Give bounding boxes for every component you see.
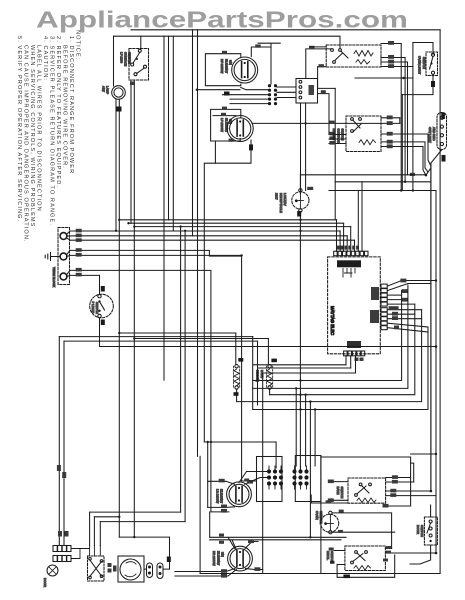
label RED on relay feed bbox=[309, 46, 315, 49]
S5 contacts bbox=[98, 295, 101, 298]
wire: TAN bottom run bbox=[337, 555, 395, 577]
wire: pin drops into control header bbox=[336, 220, 338, 252]
svg-text:NOTICE:: NOTICE: bbox=[75, 30, 81, 60]
switch S3 oven light switch (dashed box) bbox=[426, 52, 438, 76]
switch S5 pilot light switch (dashed circle) bbox=[90, 294, 114, 318]
wire: S7 left stubs bbox=[334, 482, 348, 501]
wire: S5 lower lead down and right bbox=[100, 318, 437, 347]
svg-text:2. REFER ONLY TO FEATURES EQUI: 2. REFER ONLY TO FEATURES EQUIPPED. bbox=[55, 36, 61, 188]
junction node A dots bbox=[425, 174, 428, 177]
switch S6 door lock switch (box with cross) bbox=[88, 556, 105, 581]
switch S2 contacts and blades bbox=[331, 49, 334, 52]
wire: CN1 fan to right trunks bbox=[387, 281, 436, 287]
wire: diagram top border L1 run bbox=[131, 29, 440, 31]
switch S2 infinite switch upper (dashed box) bbox=[326, 45, 381, 67]
wire: riser to bus bbox=[334, 88, 336, 181]
wire: E3 leads bbox=[235, 333, 237, 365]
wire: ring drop to block B mid bbox=[305, 395, 307, 466]
wire: E5 leads bbox=[208, 481, 235, 484]
labels BLK stubs bbox=[329, 132, 335, 145]
lamp receptacle LR1 (dashed capsule) bbox=[437, 113, 447, 150]
label BLK on left loop wire bbox=[57, 465, 61, 471]
wire: right long trunks bbox=[430, 163, 432, 491]
element E6 right rear surface unit bbox=[228, 546, 253, 571]
connector CN-RF receptacle pins (2x5) bbox=[268, 84, 277, 105]
wire: YEL link to oven cluster bbox=[311, 495, 348, 503]
wire: bus y181.8 bbox=[335, 181, 431, 183]
svg-text:AppliancePartsPros.com: AppliancePartsPros.com bbox=[36, 7, 408, 33]
svg-text:OVEN: OVEN bbox=[315, 511, 319, 520]
connector P2 bottom header (squares) bbox=[344, 351, 365, 356]
svg-text:DOOR: DOOR bbox=[43, 578, 47, 588]
junction dot bbox=[402, 77, 404, 79]
svg-text:LCK-NAV: LCK-NAV bbox=[283, 193, 287, 206]
wire: vertical return to bus bbox=[401, 95, 403, 191]
wire: CB-A ticks bbox=[269, 466, 281, 489]
element E2 coil symbol bbox=[237, 120, 243, 137]
element E4 bake element (zigzag, dashed sides) bbox=[267, 366, 273, 387]
connector CN5 pill bbox=[147, 563, 153, 578]
svg-text:SWITCH: SWITCH bbox=[341, 129, 345, 141]
wire: oven lamp bottom lead joining trunk bbox=[299, 212, 301, 471]
label TAN bbox=[442, 155, 446, 162]
wire: right border trunk bbox=[439, 30, 441, 574]
label text oven lamp bbox=[275, 193, 288, 213]
labels BLK BLK YEL at E6 bbox=[219, 534, 260, 578]
clock block pins bbox=[343, 269, 355, 278]
label BLK on E2 top bbox=[222, 107, 227, 110]
svg-text:TERM BLOCK: TERM BLOCK bbox=[52, 267, 56, 288]
svg-text:LF 1200W: LF 1200W bbox=[220, 118, 224, 132]
element E2 left front surface unit (double circle) bbox=[227, 116, 253, 142]
labels BLK BLU RED RED at S2 right bbox=[388, 41, 394, 68]
svg-text:40W LIGHT: 40W LIGHT bbox=[428, 127, 432, 143]
resistor R-S7 zigzag bbox=[357, 498, 376, 503]
svg-text:SWITCH: SWITCH bbox=[330, 551, 334, 563]
wire: S1 feed from border bbox=[140, 36, 142, 48]
wire: E2 second top lead bbox=[213, 115, 236, 117]
wire: RT1 leads bbox=[332, 513, 392, 549]
label TAN bbox=[343, 575, 350, 579]
labels BLK YEL at E5 bbox=[219, 479, 253, 513]
element E1 coil symbol bbox=[242, 62, 248, 79]
svg-text:LABEL ALL WIRES PRIOR TO DISCO: LABEL ALL WIRES PRIOR TO DISCONNECTION bbox=[36, 45, 42, 212]
svg-text:MAYTAG ELEC: MAYTAG ELEC bbox=[330, 306, 335, 335]
lamp DSP1 indicator (double circle) bbox=[112, 86, 126, 100]
svg-text:SURFACE: SURFACE bbox=[124, 52, 128, 66]
notice text block (rotated) bbox=[16, 30, 81, 243]
connector P1 top header (squares) bbox=[334, 251, 368, 256]
wire: harness bus fan to control bbox=[119, 219, 336, 221]
svg-text:SURFACE: SURFACE bbox=[336, 129, 340, 143]
receptacle LR1 contacts bbox=[440, 116, 443, 119]
ground symbol bbox=[45, 253, 60, 261]
labels BLK RED YEL on CN1 fan bbox=[400, 279, 407, 302]
junction dots red bus bbox=[435, 345, 438, 348]
element E5 coil bbox=[236, 487, 242, 503]
label BK vertical bbox=[249, 144, 253, 150]
svg-text:ANT: ANT bbox=[102, 86, 106, 92]
svg-text:SWITCH: SWITCH bbox=[95, 302, 99, 314]
wire: left mid verticals continuing down bbox=[180, 227, 182, 512]
wire: E1 red lead to receptacle bbox=[251, 47, 271, 84]
connector CN6 pill bbox=[157, 563, 163, 579]
label text RT1 bbox=[315, 511, 323, 525]
labels RED x2 bbox=[76, 268, 82, 277]
label text S7 bbox=[336, 487, 344, 499]
label text cluster E6 bbox=[212, 551, 225, 566]
wire: ring drops to blocks bbox=[295, 388, 297, 466]
junction dots S7 outputs bbox=[430, 490, 433, 493]
connector CN4 inline (strip) bbox=[53, 556, 71, 562]
svg-text:ELEMENT: ELEMENT bbox=[216, 551, 220, 565]
switch S1 contacts bbox=[138, 49, 141, 52]
wire: lamp feed from top border bbox=[113, 36, 115, 86]
label marks left of motor bbox=[108, 563, 117, 573]
wire: oven lamp top lead to node A bbox=[300, 175, 426, 189]
svg-text:SWITCH: SWITCH bbox=[340, 487, 344, 499]
terminal L1 bbox=[60, 233, 67, 240]
svg-text:BAKE: BAKE bbox=[336, 487, 340, 495]
wire: P2 pin drops bbox=[345, 356, 347, 365]
switch S4 contacts and blades bbox=[351, 118, 354, 121]
wire: L1 black leads bbox=[67, 231, 341, 235]
svg-text:SWITCH: SWITCH bbox=[127, 52, 131, 64]
labels YEL RED left stubs bbox=[328, 480, 334, 503]
label BLK bbox=[221, 113, 226, 116]
svg-text:ELEMENT: ELEMENT bbox=[225, 59, 229, 73]
label WH below lamp bbox=[297, 211, 301, 217]
lock block inside U1 bottom bbox=[347, 341, 361, 348]
label BLK / RD for E4 bbox=[271, 359, 277, 363]
wire: right side vertical trunks from S2 bbox=[400, 44, 402, 191]
label text cluster LR1 bbox=[428, 127, 436, 143]
label BLK below S1 bbox=[130, 82, 135, 86]
terminal L2 bbox=[60, 273, 67, 280]
svg-text:SWITCH: SWITCH bbox=[422, 57, 426, 69]
box: oven switch cluster top bbox=[321, 457, 411, 506]
lamp L3 door lock indicator bbox=[47, 565, 58, 576]
switch S1 surface unit switch (dashed box) bbox=[129, 49, 149, 81]
label text S5 bbox=[91, 302, 99, 314]
switch S9 oven door switch (dashed box) bbox=[424, 517, 437, 545]
label YEL feed bbox=[319, 64, 325, 67]
wire: link y454 bbox=[411, 453, 436, 455]
label text cluster S2 bbox=[332, 129, 345, 143]
label RED bbox=[255, 45, 261, 48]
wire: CB-B ticks bbox=[295, 466, 307, 489]
terminal N bbox=[60, 253, 67, 260]
label YEL bbox=[229, 139, 234, 142]
labels at S4 right bbox=[387, 116, 393, 149]
svg-text:OVEN LIGHT: OVEN LIGHT bbox=[418, 56, 422, 74]
svg-text:RF 2350: RF 2350 bbox=[332, 129, 336, 141]
svg-text:HIDDEN: HIDDEN bbox=[256, 370, 260, 382]
wire: lock switch feeds bbox=[90, 546, 101, 557]
wire: motor feed from loop bbox=[119, 537, 169, 569]
wire: feed bus y442 bbox=[204, 441, 276, 443]
relay box K1 bbox=[296, 79, 318, 104]
wire: CN2 fan to right trunks bbox=[387, 309, 421, 311]
svg-text:6IN: 6IN bbox=[229, 119, 233, 124]
wire: S8 left stubs bbox=[334, 551, 345, 565]
wire: receptacle left leads bbox=[241, 88, 268, 90]
box: connector block B housing bbox=[295, 456, 321, 502]
element E5 left rear surface unit bbox=[227, 482, 252, 507]
svg-text:3. SERVICER PLEASE RETURN DIAG: 3. SERVICER PLEASE RETURN DIAGRAM TO RAN… bbox=[49, 36, 55, 226]
wire: relay outputs down bbox=[300, 103, 302, 194]
labels WHT x2 bbox=[76, 248, 82, 256]
wire: left vertical joins bbox=[334, 182, 336, 220]
junction dots harness bbox=[118, 516, 120, 518]
label WHT on left loop wire bbox=[62, 472, 66, 478]
label TAN on S3 lower bbox=[431, 81, 435, 87]
wire: S7 right outputs bbox=[386, 477, 411, 479]
clock block inside U1 bbox=[337, 260, 361, 267]
label RD below S5 bbox=[101, 320, 105, 326]
label text S8 bbox=[326, 551, 334, 563]
labels RED BLU at RT1 bbox=[338, 510, 344, 533]
svg-text:LF 1200: LF 1200 bbox=[120, 52, 124, 63]
wire: relay outputs right to lower switch feed bbox=[318, 87, 336, 89]
switch S7 oven selector upper (dashed box) bbox=[348, 478, 386, 503]
label BLK at node A bbox=[410, 173, 415, 176]
box: right cluster housing edge bbox=[320, 456, 322, 574]
wire: L1 bus under border bbox=[114, 36, 341, 48]
resistor R-S2 zigzag bbox=[354, 51, 373, 57]
junction dots bbox=[179, 225, 181, 227]
junction dots rings bbox=[299, 379, 301, 381]
label pin id row above header bbox=[337, 246, 359, 250]
svg-text:CAN CAUSE IMPROPER AND DANGERO: CAN CAUSE IMPROPER AND DANGEROUS OPERATI… bbox=[23, 45, 29, 243]
wire: lamp lower leads bbox=[115, 99, 117, 231]
label TN on lead bbox=[224, 92, 230, 96]
svg-text:WHEN SERVICING CONTROLS, WIRIN: WHEN SERVICING CONTROLS, WIRING PROBLEMS bbox=[29, 45, 35, 228]
label BK at riser bbox=[167, 557, 171, 563]
svg-text:1. DISCONNECT RANGE FROM POWER: 1. DISCONNECT RANGE FROM POWER bbox=[68, 36, 74, 174]
wire: E6 leads bbox=[210, 536, 346, 538]
wire: E1 top lead loop bbox=[205, 54, 240, 86]
connector CN1 (right edge of U1) bbox=[381, 284, 387, 306]
labels RED RED right of S8 bbox=[383, 546, 391, 562]
label text S9 bbox=[416, 525, 424, 537]
label RD near lamp top bbox=[307, 187, 313, 190]
sensor RT1 oven temp sensor (circle) bbox=[321, 514, 339, 532]
svg-text:BEFORE REMOVING WIRE COVER.: BEFORE REMOVING WIRE COVER. bbox=[62, 45, 68, 169]
junction dots on buses bbox=[404, 181, 406, 183]
wire: S4 left stubs bbox=[329, 134, 346, 136]
label text cluster E5 bbox=[215, 489, 223, 503]
labels at S8 left bbox=[329, 548, 335, 564]
svg-text:2617: 2617 bbox=[275, 193, 279, 200]
label text for lamp bbox=[102, 86, 110, 94]
switch S3 contacts bbox=[431, 53, 434, 56]
svg-text:8IN: 8IN bbox=[229, 60, 233, 65]
label BLK on E1 top wire bbox=[222, 51, 227, 54]
wire: long verticals from top area bbox=[163, 36, 165, 380]
svg-text:LAMP: LAMP bbox=[106, 86, 110, 94]
wire: drops from y442 bbox=[207, 442, 209, 507]
svg-text:RECEPTACLE: RECEPTACLE bbox=[279, 193, 283, 213]
label DOOR LOCK text bbox=[43, 578, 47, 588]
wire: E2 top lead loop bbox=[211, 109, 241, 163]
wire: horizontal link y78 bbox=[355, 77, 413, 79]
lamp L2 oven lamp (circle) bbox=[292, 192, 309, 209]
S7 contacts and blades bbox=[359, 483, 362, 486]
labels below P2 bbox=[355, 358, 364, 362]
wire: S3 lower lead bbox=[402, 74, 433, 94]
switch S1 blades bbox=[133, 52, 140, 63]
relay marks left of CN1 bbox=[371, 287, 379, 300]
relay marks left of CN2 bbox=[370, 310, 379, 323]
connector CN3 inline (strip) bbox=[53, 546, 71, 552]
svg-text:DOOR: DOOR bbox=[416, 525, 420, 535]
wire: S9 leads bbox=[410, 505, 431, 564]
junction dots y442 bbox=[207, 441, 209, 443]
wire: connectors to lock harness bbox=[71, 549, 90, 559]
wire: E4 leads bbox=[267, 339, 269, 365]
element E6 coil bbox=[237, 551, 243, 567]
connector CN2 (right edge of U1) bbox=[381, 308, 387, 330]
label RD bbox=[101, 286, 105, 292]
wire: red drop to pilot switch bbox=[99, 275, 101, 294]
junction dots at fan left ends bbox=[118, 219, 120, 221]
label BK blob on right border bbox=[441, 113, 445, 120]
connector CB-A 3x3 grid bbox=[267, 469, 283, 485]
box: bottom-left cluster outline bbox=[199, 456, 201, 573]
resistor R-S8 zigzag bbox=[354, 566, 371, 571]
relay K1 label marks bbox=[309, 85, 315, 95]
wire: lower-left harness bbox=[90, 511, 181, 513]
wire: bottom border run bbox=[200, 573, 440, 575]
box: connector block A housing bbox=[257, 457, 283, 502]
relay K1 pins bbox=[299, 80, 302, 83]
wire: bus y190.5 bbox=[329, 190, 436, 192]
label YEL at relay right bbox=[321, 90, 326, 93]
svg-text:ELEMENT: ELEMENT bbox=[225, 118, 229, 132]
labels RED-WHT RED ORN on CN2 fan bbox=[389, 306, 399, 329]
label TN / RD for E3 bbox=[238, 358, 243, 362]
wire: L2 red leads bbox=[67, 270, 211, 512]
label text cluster for S1 bbox=[120, 52, 132, 66]
svg-text:SENSOR: SENSOR bbox=[319, 511, 323, 525]
wire: relay trunk dots at fan crossings bbox=[299, 219, 301, 221]
svg-text:P LIGHT: P LIGHT bbox=[91, 302, 95, 314]
label text cluster for E2 bbox=[220, 118, 233, 132]
labels BLK x3 bbox=[76, 229, 82, 242]
wire: receptacle to relay box bbox=[277, 86, 296, 88]
control U1 electronic range control (dashed box) bbox=[328, 257, 381, 354]
svg-text:RF 2350W: RF 2350W bbox=[220, 59, 224, 74]
S9 contacts bbox=[429, 520, 432, 523]
element E1 right front surface unit (double circle) bbox=[232, 57, 258, 83]
wire: S8 right outputs bbox=[385, 548, 391, 550]
wire: S2 left feeds bbox=[310, 46, 326, 48]
svg-text:5. VERIFY PROPER OPERATION AFT: 5. VERIFY PROPER OPERATION AFTER SERVICI… bbox=[16, 36, 22, 222]
labels BLK BLK BLU BLU RED right of S7 bbox=[383, 475, 398, 507]
wire: WHT lead into CB-A bbox=[242, 480, 257, 482]
label text cluster E4 bbox=[256, 370, 264, 382]
wire: big left loop rings bbox=[59, 336, 252, 338]
wire: LR1 to junction diagonal bbox=[431, 150, 442, 492]
label text cluster for E1 bbox=[220, 59, 233, 74]
junction dots ring drops bbox=[295, 387, 297, 389]
wire: E2 blk lead down-left bbox=[204, 140, 251, 442]
wire: motor to pills to riser bbox=[144, 568, 170, 570]
wire: relay feed red bbox=[306, 49, 332, 79]
label BLK under lamp bbox=[116, 107, 122, 112]
svg-text:SWITCH: SWITCH bbox=[420, 525, 424, 537]
connector CB-B 3x3 grid bbox=[292, 469, 308, 485]
svg-text:4. CAUTION:: 4. CAUTION: bbox=[42, 36, 48, 81]
element E3 broil element (zigzag, dashed sides) bbox=[234, 366, 240, 387]
motor M1 door lock motor bbox=[118, 556, 144, 582]
S8 contacts and blades bbox=[355, 551, 358, 554]
labels BK WH above connectors bbox=[58, 531, 69, 537]
wire: S4 output drop to junction bbox=[423, 147, 426, 176]
wire: S2 right outputs bbox=[381, 43, 401, 45]
svg-text:LR 1200W: LR 1200W bbox=[215, 489, 219, 503]
wire: E2 yel lead bbox=[215, 139, 240, 142]
svg-text:BROIL: BROIL bbox=[326, 551, 330, 560]
switch S8 oven selector lower (dashed box) bbox=[345, 546, 386, 571]
svg-text:ELEMENT: ELEMENT bbox=[220, 489, 224, 503]
wire: S4 right outputs bbox=[381, 117, 400, 119]
wire: under-control rings bbox=[253, 337, 346, 410]
svg-text:8IN: 8IN bbox=[221, 552, 225, 557]
terminal block TB1 (dashed) bbox=[58, 228, 70, 285]
label text for S3 oven light switch bbox=[418, 56, 426, 74]
wire: N white leads bbox=[67, 250, 242, 481]
wire: S1 outputs down bbox=[130, 80, 132, 223]
svg-text:AND REC: AND REC bbox=[432, 127, 436, 141]
svg-text:RR 2100W: RR 2100W bbox=[212, 551, 216, 566]
wire: oven light loop top bbox=[413, 43, 433, 55]
switch S4 infinite switch lower (dashed box) bbox=[346, 116, 381, 152]
resistor R-S4 zigzag bbox=[359, 140, 376, 145]
